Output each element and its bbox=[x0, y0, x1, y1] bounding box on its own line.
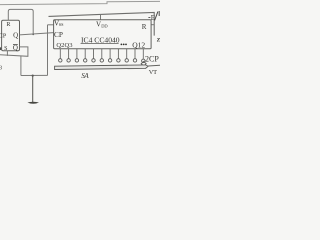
label +E at top right bbox=[148, 11, 159, 22]
svg-text:CP: CP bbox=[0, 34, 7, 40]
value label IC4 CC4040 bbox=[81, 35, 120, 44]
wire (Q-bar return to left edge) bbox=[0, 47, 28, 56]
svg-text:Q2Q3: Q2Q3 bbox=[56, 42, 73, 49]
svg-text:R: R bbox=[142, 23, 147, 31]
wire (cropped grey rule across top) bbox=[0, 1, 160, 4]
wire (drop to ground) bbox=[32, 76, 34, 103]
op-amp: IC U4 CC4040 counter box bbox=[54, 20, 152, 49]
wire pin Q2 bbox=[60, 49, 143, 59]
svg-text:SA: SA bbox=[81, 72, 89, 80]
pin label Vss (IC) bbox=[54, 20, 64, 28]
svg-text:DD: DD bbox=[101, 24, 108, 29]
wire (bar to VT) bbox=[148, 64, 160, 67]
switch wiper diamond bbox=[141, 62, 146, 66]
svg-text:R: R bbox=[6, 22, 10, 28]
pin label VDD (IC) bbox=[96, 21, 108, 29]
wire (S pin drop) bbox=[6, 51, 8, 56]
wire (Vss vertical to ground bus) bbox=[47, 25, 49, 76]
wire (VDD supply rail) bbox=[49, 12, 155, 35]
pin label Q-bar (flip-flop) bbox=[13, 44, 18, 52]
svg-text:Q: Q bbox=[13, 32, 18, 40]
wire (Vss stub into IC) bbox=[48, 24, 54, 26]
svg-text:SS: SS bbox=[59, 22, 64, 27]
background bbox=[0, 0, 160, 110]
ellipsis dots bbox=[121, 44, 127, 46]
switch SA bar bbox=[55, 65, 149, 70]
svg-text:VT: VT bbox=[149, 69, 157, 76]
svg-text:Z: Z bbox=[157, 38, 160, 44]
wire (Q output to IC CP input) bbox=[20, 33, 54, 35]
wire (branch down to ground bus) bbox=[20, 56, 22, 76]
wire (VDD stub down to IC) bbox=[100, 14, 102, 19]
wire (R feedback loop over flip-flop) bbox=[8, 9, 33, 34]
svg-text:E: E bbox=[151, 14, 155, 22]
svg-text:Q12: Q12 bbox=[132, 41, 145, 50]
node junction (ground tap) bbox=[32, 75, 34, 77]
node junction (R loop joins Q wire) bbox=[32, 34, 34, 36]
wire (ground bus horizontal) bbox=[21, 74, 48, 76]
flip-flop U1 bbox=[2, 20, 20, 50]
wire (R pin stub of IC) bbox=[151, 24, 154, 26]
switch contact circles bbox=[59, 59, 145, 63]
partial glyph at left edge near S bbox=[0, 47, 1, 50]
svg-text:IC4 CC4040: IC4 CC4040 bbox=[81, 35, 120, 44]
svg-text:3: 3 bbox=[0, 64, 2, 71]
ground bbox=[27, 102, 39, 104]
svg-text:CP: CP bbox=[54, 30, 63, 39]
svg-text:Q: Q bbox=[13, 44, 18, 52]
svg-text:2CP: 2CP bbox=[145, 55, 159, 64]
